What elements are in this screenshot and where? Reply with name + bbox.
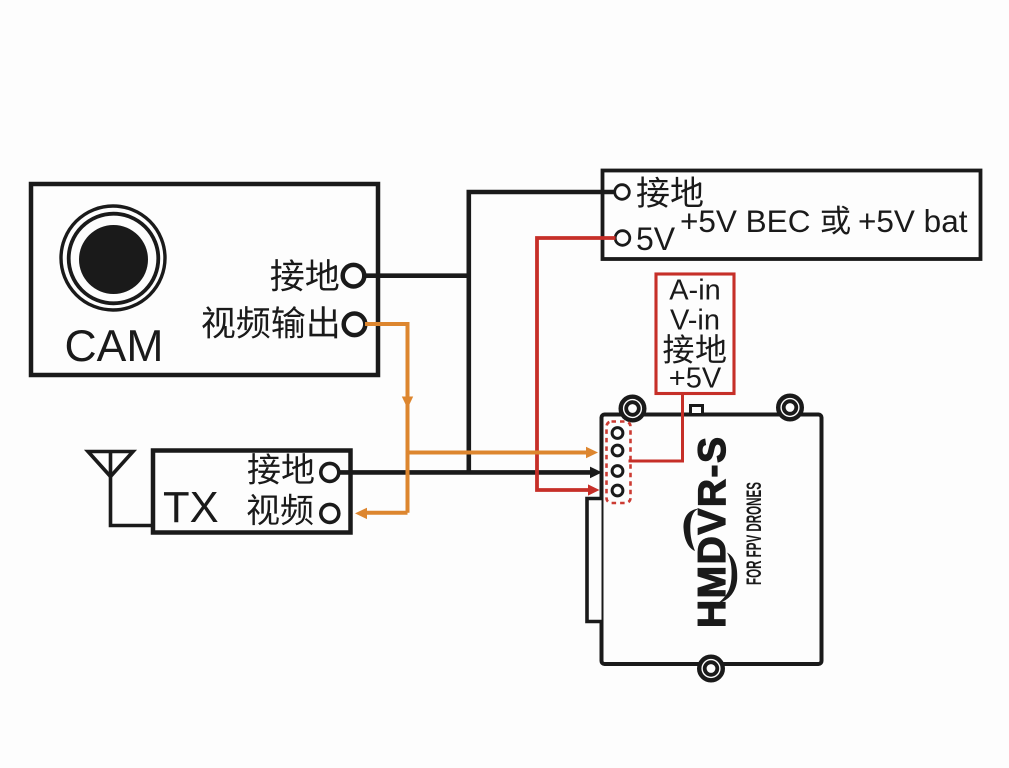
terminal: CAM ground pin [343,265,365,287]
notch on top edge [691,406,703,415]
svg-text:V-in: V-in [670,305,720,337]
arrowhead: video direction down [402,397,413,409]
svg-text:+5V BEC: +5V BEC [680,203,810,239]
input connector (dashed) [607,422,631,504]
connector pad 4 (+5V) [612,485,623,496]
connector pad 2 (V-in) [612,445,623,456]
svg-text:HMDVR-S: HMDVR-S [691,436,734,629]
wire: ground to power box [467,190,616,195]
connector pad 1 (A-in) [612,428,623,439]
label 视频输出 (video output) [202,306,234,338]
label 接地 (TX ground) [248,453,280,484]
logo swoosh 1 [684,509,700,552]
svg-text:FOR FPV DRONES: FOR FPV DRONES [743,482,766,585]
svg-text:A-in: A-in [669,275,721,307]
wire: video out of CAM [365,324,408,513]
arrowhead: video into TX [355,508,367,519]
card slot on left edge [587,499,602,622]
label 视频 (TX video) [247,494,278,525]
TX transmitter box [153,451,351,533]
svg-text:CAM: CAM [65,322,164,371]
logo HMDVR-S [691,436,734,629]
arrowhead: video into DVR pad 2 [586,447,598,458]
antenna [88,452,153,526]
mounting hole top-right [778,396,802,420]
CAM module box [31,184,378,375]
terminal: TX video pin [321,504,339,522]
wire: video branch to DVR [408,451,587,455]
wire: TX ground to DVR [339,470,590,475]
power source box (+5V BEC / battery) [603,171,981,260]
terminal: CAM video output pin [344,314,366,336]
camera lens [61,206,165,310]
DVR HMDVR-S body [602,415,822,665]
svg-text:5V: 5V [636,221,676,257]
logo swoosh 2 [718,553,738,604]
svg-text:TX: TX [163,484,219,532]
arrowhead: +5V into DVR pad 4 [588,484,600,495]
pin label box (A-in/V-in/ground/+5V) [656,274,734,394]
svg-text:+5V bat: +5V bat [858,203,968,239]
wire: video branch to TX [367,511,408,515]
label 接地 (pinout) [663,334,693,363]
wire: CAM ground to junction column [364,273,469,278]
wire: 5V from power box [537,238,616,490]
terminal: power 5V pin [615,231,630,246]
mounting hole top-left [621,397,645,421]
terminal: power ground pin [615,185,630,200]
label FOR FPV DRONES [743,482,766,585]
label 接地 (power ground) [637,176,669,207]
wire: ground vertical bus [466,192,471,472]
label 接地 (CAM ground pin) [271,259,304,291]
pointer wire from label box to connector [629,394,683,462]
connector pad 3 (ground) [612,466,623,477]
arrowhead: ground into DVR pad 3 [590,467,602,479]
svg-text:+5V: +5V [669,363,722,395]
terminal: TX ground pin [321,463,339,481]
mounting hole bottom [699,657,723,681]
